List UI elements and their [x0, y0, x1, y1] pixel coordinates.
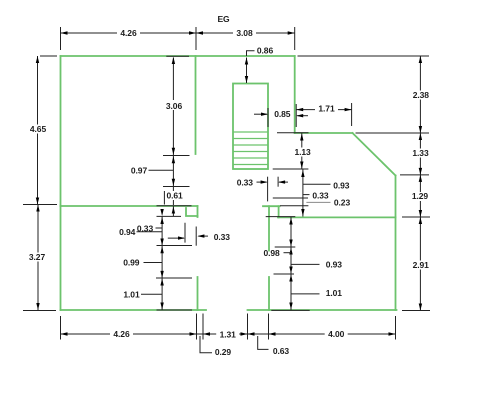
tick y155.5: [163, 155, 190, 157]
svg-text:4.00: 4.00: [328, 329, 345, 339]
dim line top: [61, 32, 295, 34]
dim top extension tick left: [60, 27, 62, 50]
tick y205.8: [280, 205, 308, 207]
leader 0.99: [144, 262, 163, 264]
svg-text:4.26: 4.26: [113, 329, 130, 339]
dim 1.13 arrows: [300, 134, 303, 169]
wall top: [61, 55, 295, 57]
svg-text:0.33: 0.33: [137, 224, 154, 234]
wall bottom right segment: [248, 309, 397, 311]
wall right-room left upper: [268, 206, 270, 250]
tick y186.5: [163, 186, 190, 188]
leader 0.63: [258, 336, 269, 349]
label 1.31: [216, 329, 239, 339]
dim right extension y131.5: [356, 132, 430, 134]
leader 0.33 small left: [156, 227, 163, 229]
label 3.08 top: [233, 28, 256, 38]
leader 0.97: [149, 169, 174, 171]
svg-text:0.93: 0.93: [333, 180, 350, 190]
dim 4.65 arrows: [36, 56, 39, 205]
wall top of right wing: [295, 132, 353, 134]
wall interior vertical left-room upper jamb: [197, 206, 199, 217]
dim left extension middle: [23, 204, 57, 206]
wall step at hall vertical: [278, 206, 280, 217]
dim 0.97 arrows: [172, 156, 175, 185]
svg-text:1.33: 1.33: [412, 148, 429, 158]
wall bottom left segment: [61, 309, 207, 311]
dim bottom extension ticks: [61, 314, 396, 340]
svg-text:0.63: 0.63: [273, 346, 290, 356]
tick left of 0.61: [163, 191, 165, 205]
dim right-room column line: [290, 217, 292, 310]
dim 3.06 arrows: [172, 57, 175, 155]
svg-text:1.29: 1.29: [412, 191, 429, 201]
dim line 1.13: [301, 133, 303, 169]
svg-text:0.94: 0.94: [119, 227, 136, 237]
dim 1.71 tick right: [351, 103, 353, 126]
lower-left column arrows: [160, 209, 163, 310]
dim right extension y56: [298, 55, 430, 57]
svg-text:2.38: 2.38: [413, 90, 430, 100]
leader 0.29: [200, 336, 212, 353]
label 1.33: [409, 148, 432, 158]
dim line 4.65: [37, 56, 39, 205]
dim top extension tick middle: [195, 27, 197, 50]
dim lower-left column line: [161, 216, 163, 310]
svg-text:3.06: 3.06: [166, 101, 183, 111]
label 4.65: [27, 124, 50, 134]
dim column arrows: [301, 170, 304, 216]
tick y198: [273, 197, 308, 199]
svg-text:4.26: 4.26: [120, 28, 137, 38]
label 2.91: [409, 260, 432, 270]
dim right extension y310: [402, 310, 430, 312]
leader 0.23 gray: [306, 201, 330, 203]
svg-text:0.61: 0.61: [167, 191, 184, 201]
leader 1.01 right: [291, 293, 320, 295]
dim 0.86 leader: [247, 51, 255, 56]
svg-text:0.85: 0.85: [274, 109, 291, 119]
tick on top wall: [166, 55, 189, 57]
wall interior vertical left-room lower jamb: [197, 277, 199, 310]
label 4.26 top: [117, 28, 140, 38]
tick on bottom wall left room: [157, 309, 193, 311]
dim 0.86 arrow line: [246, 58, 248, 84]
svg-text:0.98: 0.98: [264, 248, 281, 258]
tick y216.4: [157, 215, 182, 217]
svg-text:0.23: 0.23: [334, 198, 351, 208]
dim right extension y175: [400, 174, 429, 176]
dim line bottom: [61, 333, 396, 335]
svg-text:2.91: 2.91: [413, 260, 430, 270]
label 1.29: [408, 191, 431, 201]
leader 0.93 lower: [291, 263, 320, 265]
svg-text:0.33: 0.33: [312, 190, 329, 200]
svg-text:1.71: 1.71: [318, 104, 335, 114]
tick y247: [275, 246, 296, 248]
tick on bottom wall right room: [271, 309, 309, 311]
dim top arrows: [61, 31, 295, 34]
wall right exterior: [395, 176, 397, 311]
label 4.26 bottom: [110, 329, 133, 339]
dim 1.13 bottom tick: [273, 168, 309, 170]
dim 0.85 left arrow: [254, 113, 267, 115]
dim 0.86 arrows: [245, 58, 248, 84]
tick y246.4: [157, 245, 193, 247]
dim left extension top: [40, 55, 57, 57]
dim 1.71 arrows: [296, 108, 351, 111]
dim 0.85 right arrow: [297, 115, 308, 117]
label 1.13: [291, 147, 314, 157]
svg-text:0.97: 0.97: [131, 165, 148, 175]
label 1.71: [315, 104, 338, 114]
wall interior horizontal left: [61, 205, 198, 207]
tick on wall y205.8: [157, 205, 192, 207]
svg-text:0.86: 0.86: [257, 46, 274, 56]
svg-text:0.93: 0.93: [326, 260, 343, 270]
svg-text:4.65: 4.65: [30, 124, 47, 134]
dim top extension tick right: [294, 27, 296, 50]
label 2.38: [409, 90, 432, 100]
wall step at hall horizontal: [263, 205, 280, 207]
svg-text:0.33: 0.33: [214, 232, 231, 242]
dim line right column: [419, 56, 421, 311]
upper column tail below wall: [172, 206, 174, 217]
dim 0.85 right tick: [295, 104, 297, 127]
tick y216.6: [266, 216, 296, 218]
dim 0.33 hall arrows: [257, 181, 267, 183]
svg-text:1.31: 1.31: [220, 329, 237, 339]
label 4.00: [325, 329, 348, 339]
svg-text:0.99: 0.99: [123, 258, 140, 268]
wall diagonal chamfer: [353, 133, 396, 176]
stairwell outline: [233, 84, 268, 170]
wall right-of-hall vertical: [294, 56, 296, 133]
leader 0.93 upper right: [303, 183, 331, 185]
svg-text:3.27: 3.27: [29, 252, 46, 262]
dim 0.33 door ticks: [184, 223, 186, 243]
dim 3.27 arrows: [36, 205, 39, 311]
dim line 1.71: [296, 109, 351, 111]
svg-text:1.01: 1.01: [326, 288, 343, 298]
dim column below 1.13: [302, 169, 304, 217]
svg-text:EG: EG: [218, 14, 230, 24]
stair treads: [233, 132, 268, 165]
dim 1.13 top tick on wall: [277, 132, 309, 134]
svg-text:0.33: 0.33: [237, 177, 254, 187]
dim bottom arrows: [61, 332, 396, 335]
dim line 3.06 column: [172, 58, 174, 206]
dim right column arrows: [419, 56, 422, 311]
dim 0.33 door arrows: [168, 237, 184, 239]
tick y278: [156, 277, 192, 279]
svg-text:1.13: 1.13: [295, 147, 312, 157]
svg-text:3.08: 3.08: [236, 28, 253, 38]
dim line 3.27: [37, 205, 39, 311]
leader 0.33 right column: [303, 194, 310, 196]
wall middle right horizontal: [278, 216, 396, 218]
right-room column arrows: [289, 218, 292, 310]
dim 0.33 hall ticks: [267, 177, 269, 202]
dim right extension y217: [402, 216, 430, 218]
wall notch left of jamb: [186, 208, 198, 216]
leader 0.98: [284, 252, 292, 254]
wall left upper: [60, 56, 62, 206]
dim left extension bottom: [23, 310, 56, 312]
svg-text:1.01: 1.01: [123, 289, 140, 299]
label 0.61: [166, 191, 187, 201]
leader 1.01 left: [141, 293, 162, 295]
label 3.27: [26, 252, 49, 262]
label 3.06: [162, 100, 186, 111]
dim 0.85 left tick: [267, 108, 269, 127]
wall left lower: [60, 206, 62, 310]
tick y274: [274, 273, 295, 275]
wall interior vertical center top: [195, 56, 197, 154]
wall right-room left lower: [268, 277, 270, 310]
leader 0.94: [137, 231, 163, 233]
svg-text:0.29: 0.29: [215, 347, 232, 357]
